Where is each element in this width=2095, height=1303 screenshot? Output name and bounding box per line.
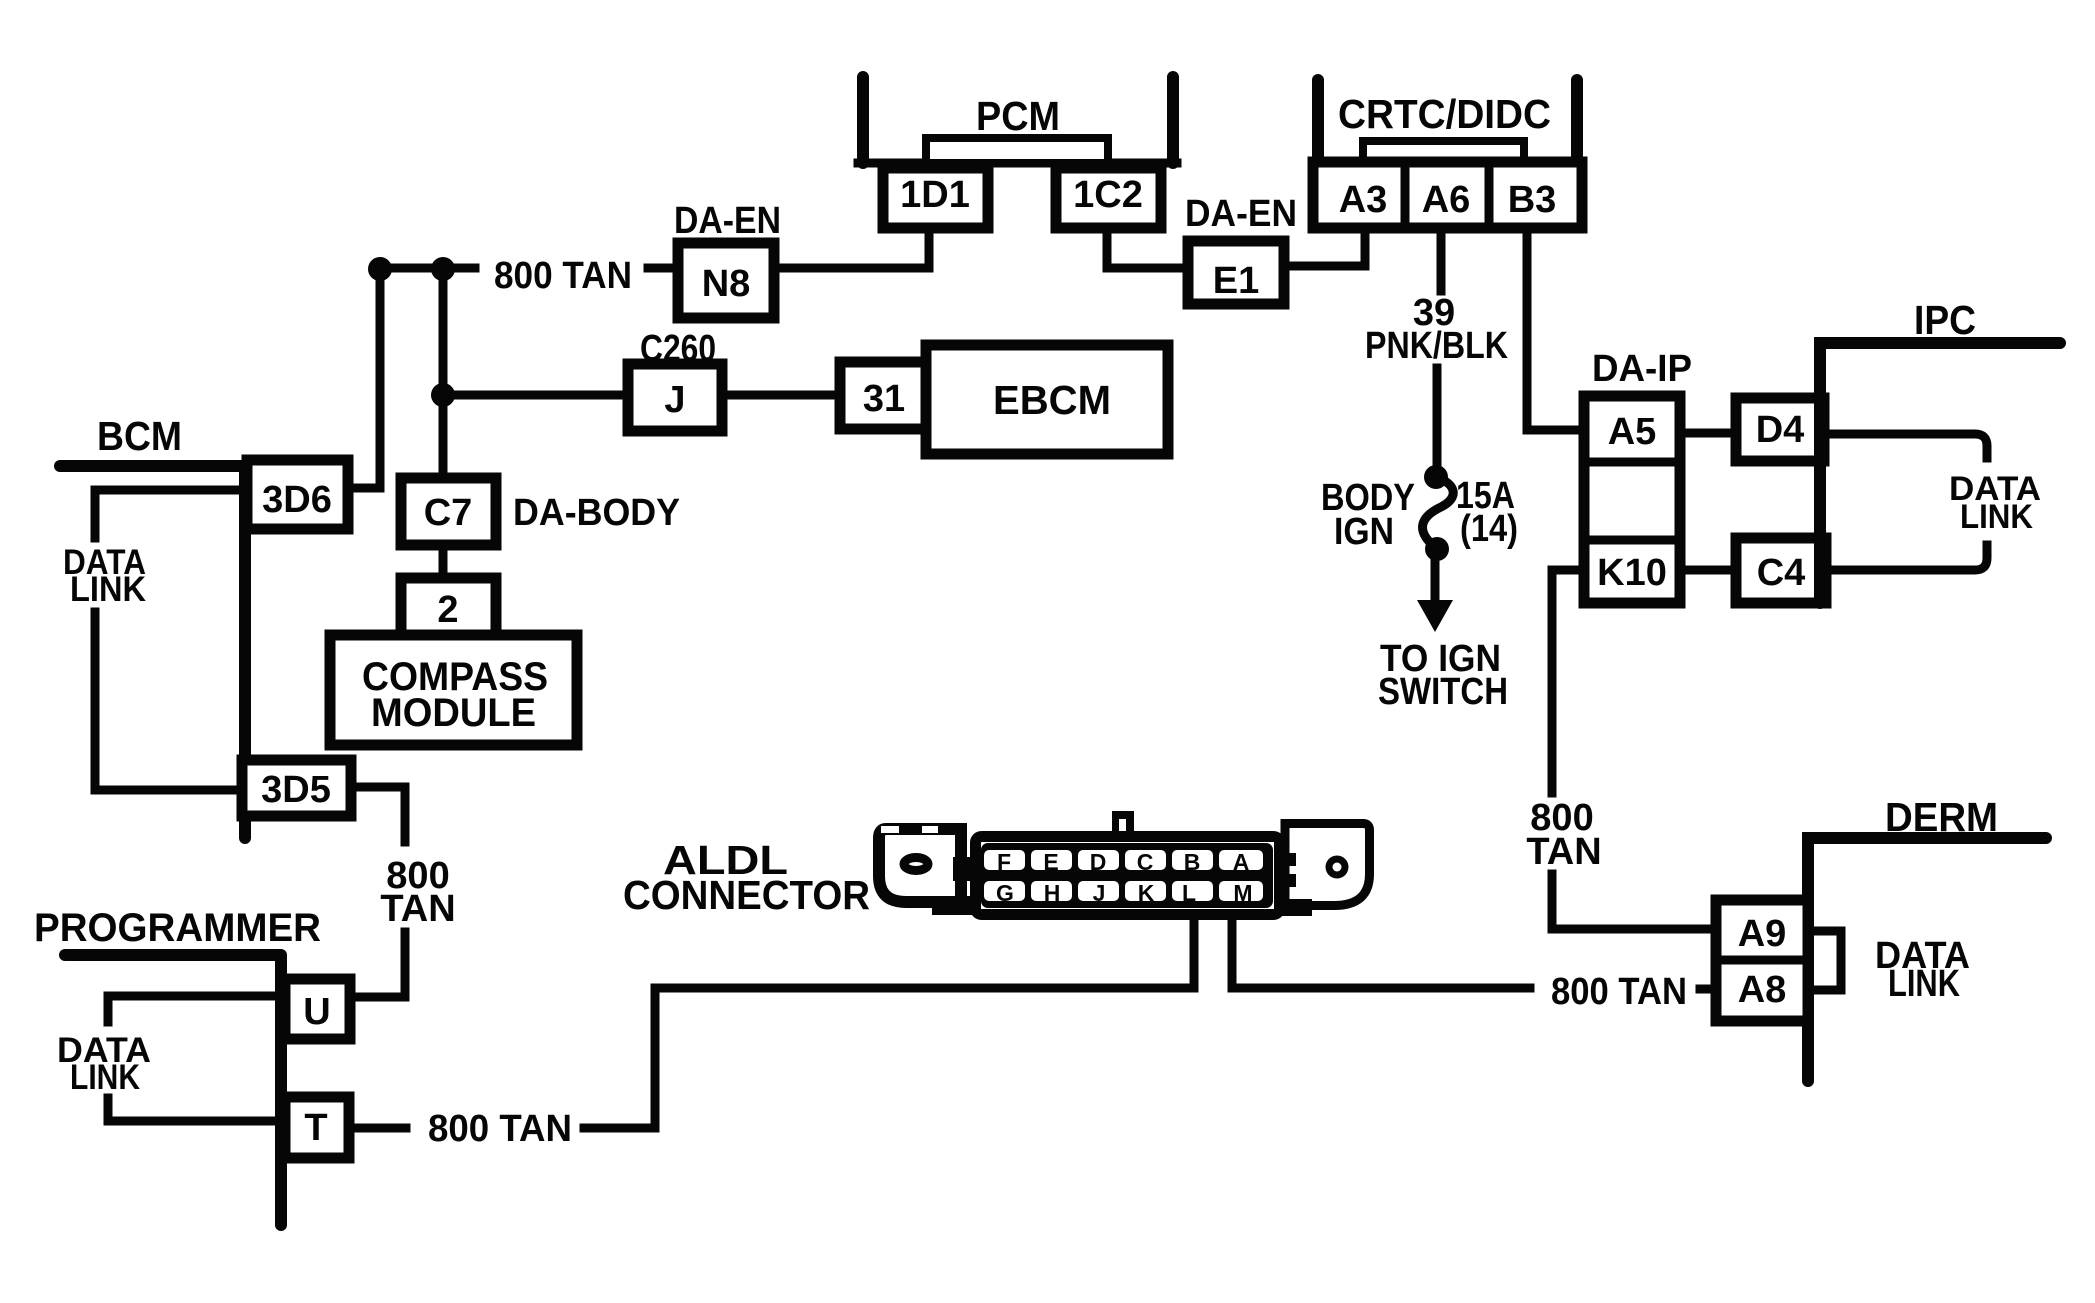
svg-text:E: E <box>1043 849 1058 875</box>
svg-text:T: T <box>304 1107 327 1149</box>
svg-text:J: J <box>1093 880 1106 906</box>
connector bar PCM <box>926 138 1108 163</box>
wire 1C2 drop to E1 <box>1107 228 1188 268</box>
connector frame DERM pins <box>1716 900 1808 1021</box>
connector frame CRTC pins <box>1313 162 1582 228</box>
svg-text:M: M <box>1233 880 1252 906</box>
svg-text:MODULE: MODULE <box>371 691 536 735</box>
svg-text:K10: K10 <box>1597 552 1667 594</box>
svg-text:1C2: 1C2 <box>1073 174 1143 216</box>
svg-text:LINK: LINK <box>70 1058 140 1097</box>
pin T <box>285 1097 349 1158</box>
wire junction to connector J <box>443 391 628 400</box>
svg-text:K: K <box>1138 880 1155 906</box>
svg-text:BCM: BCM <box>97 413 182 459</box>
wire to ign switch arrow <box>1431 549 1440 600</box>
pin 2 compass <box>401 578 496 640</box>
ALDL pin M <box>1219 880 1263 906</box>
svg-text:PNK/BLK: PNK/BLK <box>1365 325 1508 367</box>
connector N8 <box>678 243 774 318</box>
svg-text:LINK: LINK <box>1888 963 1960 1005</box>
svg-text:A9: A9 <box>1738 913 1787 955</box>
connector bar CRTC/DIDC <box>1363 141 1524 164</box>
svg-text:C4: C4 <box>1757 552 1806 594</box>
svg-text:C7: C7 <box>424 492 473 534</box>
ALDL connector left ear <box>879 826 976 915</box>
svg-text:A3: A3 <box>1339 179 1388 221</box>
junction dot node top-second <box>431 257 455 281</box>
svg-text:2: 2 <box>437 589 458 631</box>
module BCM outline <box>60 466 245 838</box>
svg-text:D4: D4 <box>1756 409 1805 451</box>
ALDL connector body <box>976 837 1280 915</box>
svg-text:DA-IP: DA-IP <box>1592 348 1692 390</box>
svg-text:G: G <box>996 880 1014 906</box>
module EBCM <box>926 345 1168 454</box>
ALDL pin K <box>1125 880 1166 906</box>
svg-text:L: L <box>1182 880 1196 906</box>
svg-text:800 TAN: 800 TAN <box>1551 971 1687 1013</box>
junction dot node J-branch <box>431 383 455 407</box>
data link loop DERM <box>1808 931 1841 990</box>
svg-text:TAN: TAN <box>380 888 455 930</box>
svg-text:A: A <box>1233 849 1250 875</box>
ALDL pin B <box>1172 849 1213 875</box>
svg-text:F: F <box>997 849 1011 875</box>
svg-text:N8: N8 <box>702 263 751 305</box>
connector E1 <box>1188 241 1284 304</box>
wire D4 to data link stub <box>1826 434 1987 458</box>
svg-text:3D6: 3D6 <box>262 479 332 521</box>
pin U <box>285 979 350 1039</box>
svg-text:D: D <box>1090 849 1107 875</box>
svg-text:E1: E1 <box>1213 260 1259 302</box>
data link bracket PROGRAMMER <box>108 996 276 1121</box>
wire A6 drop <box>1437 228 1446 291</box>
pin C4 <box>1736 538 1826 603</box>
svg-text:3D5: 3D5 <box>261 769 331 811</box>
connector frame DA-IP <box>1584 396 1680 603</box>
ALDL pin E <box>1031 849 1072 875</box>
ALDL pin C <box>1125 849 1166 875</box>
ALDL pin F <box>984 849 1025 875</box>
svg-text:B3: B3 <box>1508 179 1557 221</box>
pin 1D1 <box>883 168 988 228</box>
fuse BODY IGN 15A (14) <box>1423 465 1454 561</box>
svg-text:DA-EN: DA-EN <box>1185 193 1297 235</box>
svg-text:IGN: IGN <box>1334 511 1394 553</box>
pin D4 <box>1736 398 1824 461</box>
ALDL pin H <box>1031 880 1072 906</box>
wire J to pin 31 <box>722 391 840 400</box>
connector C7 <box>401 478 496 545</box>
ALDL pin J <box>1078 880 1119 906</box>
svg-text:PROGRAMMER: PROGRAMMER <box>34 906 321 950</box>
wire 3D5 to 800 TAN down to U <box>349 787 405 997</box>
module PROGRAMMER outline <box>65 955 281 1225</box>
wire E1 to A3 drop <box>1284 228 1365 266</box>
pin 3D5 <box>242 760 351 816</box>
wire junction down to C7 <box>439 395 448 478</box>
wire ALDL M to 800 TAN to A8 <box>1232 920 1716 989</box>
ALDL connector key tab <box>1112 811 1134 835</box>
svg-text:LINK: LINK <box>1960 498 2033 536</box>
svg-text:B: B <box>1184 849 1201 875</box>
wire C7 to compass pin 2 <box>439 545 448 578</box>
svg-text:C: C <box>1137 849 1154 875</box>
svg-text:U: U <box>303 991 330 1033</box>
module IPC outline <box>1820 343 2060 603</box>
ALDL pin L <box>1172 880 1213 906</box>
svg-text:(14): (14) <box>1460 508 1518 550</box>
wire K10 to 800 TAN down to A9 <box>1552 570 1716 929</box>
svg-text:A5: A5 <box>1608 411 1657 453</box>
wire N8 to 1D1 drop <box>774 228 929 268</box>
module DERM outline <box>1808 838 2046 1081</box>
data link bracket BCM <box>95 490 242 790</box>
svg-text:A8: A8 <box>1738 969 1787 1011</box>
svg-text:EBCM: EBCM <box>993 377 1111 423</box>
connector C260 pin J <box>628 364 722 431</box>
wire 800 TAN top: dot1 to dot2 to N8 <box>380 264 678 273</box>
ALDL pin D <box>1078 849 1119 875</box>
svg-text:J: J <box>664 379 685 421</box>
svg-text:DA-EN: DA-EN <box>674 200 781 242</box>
ALDL pin A <box>1219 849 1263 875</box>
svg-text:SWITCH: SWITCH <box>1378 671 1508 713</box>
junction dot node top-left <box>368 257 392 281</box>
module PCM outline <box>858 77 1177 163</box>
svg-text:CRTC/DIDC: CRTC/DIDC <box>1338 91 1551 137</box>
pin 3D6 <box>247 460 348 529</box>
svg-text:TAN: TAN <box>1526 831 1601 873</box>
svg-text:DA-BODY: DA-BODY <box>513 492 680 534</box>
svg-text:IPC: IPC <box>1914 297 1976 343</box>
module COMPASS MODULE <box>330 635 577 745</box>
svg-text:A6: A6 <box>1422 179 1471 221</box>
wire to fuse <box>1433 368 1442 470</box>
wire K10 to C4 <box>1680 566 1736 575</box>
wire T to 800 TAN to ALDL <box>349 920 1194 1128</box>
ALDL pin G <box>984 880 1025 906</box>
svg-text:CONNECTOR: CONNECTOR <box>623 872 870 918</box>
pin 1C2 <box>1056 168 1161 228</box>
svg-text:31: 31 <box>863 378 905 420</box>
svg-text:H: H <box>1044 880 1061 906</box>
wire dot1 down to 3D6 <box>348 269 380 488</box>
pin 31 <box>840 362 928 429</box>
wire C4 to data link stub <box>1826 545 1987 570</box>
ALDL connector right ear <box>1278 824 1370 917</box>
svg-text:LINK: LINK <box>70 570 146 609</box>
svg-text:800 TAN: 800 TAN <box>494 255 632 297</box>
wire A5 to D4 <box>1682 429 1736 438</box>
svg-text:800 TAN: 800 TAN <box>428 1108 572 1150</box>
svg-text:1D1: 1D1 <box>900 174 970 216</box>
module CRTC/DIDC outline <box>1318 80 1577 167</box>
svg-text:PCM: PCM <box>976 93 1060 139</box>
wire dot2 down to node J junction <box>439 269 448 395</box>
wire B3 drop to A5 <box>1527 228 1584 430</box>
